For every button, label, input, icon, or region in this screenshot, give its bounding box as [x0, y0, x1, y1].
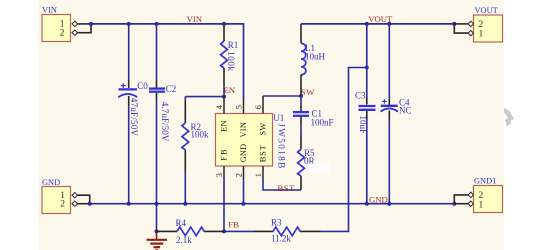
- resistor R4 body: [177, 227, 204, 236]
- resistor R5 top lead: [300, 135, 302, 149]
- capacitor C3 top wire: [366, 24, 368, 97]
- resistor R1 bottom lead: [223, 68, 225, 85]
- capacitor C1 bottom plate: [293, 115, 309, 117]
- VOUT pin 2 circle: [468, 21, 473, 26]
- U1 pin 3 lead: [223, 166, 225, 178]
- junction at VIN connector: [89, 22, 93, 26]
- capacitor C3 bottom lead: [366, 111, 368, 119]
- wire SW from pin6: [263, 95, 301, 97]
- resistor R3 right lead: [300, 230, 321, 232]
- capacitor C4 top lead: [388, 99, 390, 105]
- junction GND rail / R2: [183, 202, 187, 206]
- svg-text:BST: BST: [278, 183, 296, 193]
- capacitor C0 top plate: [119, 88, 138, 90]
- junction GND1 connector: [452, 202, 456, 206]
- U1 pin 2 lead: [243, 166, 245, 180]
- svg-text:VIN: VIN: [239, 122, 248, 138]
- svg-text:2: 2: [60, 28, 65, 38]
- wire VOUT pin2 stub: [454, 23, 468, 25]
- capacitor C0 bottom lead: [128, 96, 130, 105]
- U1 pin 6 lead: [262, 96, 264, 114]
- wire GND1 pin1 stub: [454, 203, 468, 205]
- U1 pin 1 lead: [262, 166, 264, 180]
- wire C1 to R5: [300, 125, 302, 135]
- white patch artifact: [308, 164, 331, 173]
- svg-text:EN: EN: [224, 85, 236, 95]
- wire R1 to EN: [223, 85, 225, 97]
- U1 pin 5 lead: [243, 99, 245, 114]
- svg-text:5: 5: [234, 105, 243, 109]
- resistor R5 bottom lead: [300, 176, 302, 190]
- wire VOUT pin1 stub: [454, 24, 468, 33]
- junction FB node: [222, 229, 226, 233]
- junction GND rail / C2: [155, 202, 159, 206]
- svg-text:NC: NC: [399, 105, 412, 115]
- connector J VIN box: [42, 6, 71, 42]
- resistor R3 body: [273, 227, 300, 236]
- svg-text:U1: U1: [273, 113, 284, 123]
- resistor R4 left lead: [157, 230, 178, 232]
- capacitor C1 top plate: [293, 111, 309, 113]
- VIN pin 1 circle: [72, 21, 77, 26]
- wire GND pin2 stub: [77, 203, 90, 205]
- wire VOUT top rail: [301, 23, 454, 25]
- wire EN horizontal: [185, 96, 224, 98]
- svg-text:1: 1: [254, 173, 263, 177]
- wire VIN pin1 stub: [77, 23, 91, 25]
- wire GND1 pin2 stub: [454, 195, 468, 204]
- resistor R2 top wire: [184, 97, 186, 101]
- wire C3 to ground rail: [366, 119, 368, 204]
- svg-text:4.7uF/50V: 4.7uF/50V: [160, 102, 170, 142]
- junction VOUT connector: [452, 22, 456, 26]
- junction VOUT rail / C3: [365, 22, 369, 26]
- wire GND pin1 stub: [77, 195, 90, 204]
- svg-text:2.1k: 2.1k: [176, 235, 192, 245]
- svg-text:JW5018B: JW5018B: [275, 123, 285, 169]
- GND1 pin 2 circle: [468, 192, 473, 197]
- capacitor C1 top wire: [300, 96, 302, 105]
- ground earth symbol: [147, 229, 168, 250]
- capacitor C2 bottom lead: [156, 93, 158, 101]
- wire BST from pin1: [263, 180, 301, 190]
- inductor L1 coil: [301, 43, 306, 74]
- VOUT pin 1 circle: [468, 30, 473, 35]
- svg-text:VIN: VIN: [42, 6, 57, 15]
- capacitor C0 top lead: [128, 80, 130, 88]
- wire VIN top rail: [91, 24, 244, 99]
- junction EN node: [222, 95, 226, 99]
- resistor R3 left lead: [254, 230, 274, 232]
- svg-text:100nF: 100nF: [311, 118, 334, 128]
- capacitor C4 bottom lead: [388, 111, 390, 120]
- junction GND rail / C4: [387, 202, 391, 206]
- svg-text:100k: 100k: [226, 51, 236, 71]
- svg-text:6: 6: [254, 105, 263, 109]
- wire VIN pin2 stub: [77, 24, 91, 33]
- svg-text:EN: EN: [220, 120, 229, 132]
- wire FB to R3: [224, 230, 254, 232]
- svg-text:11.2k: 11.2k: [271, 234, 291, 244]
- svg-text:C3: C3: [355, 90, 366, 100]
- resistor R4 right lead: [204, 230, 224, 232]
- svg-text:FB: FB: [228, 220, 239, 230]
- resistor R2 bottom lead: [184, 150, 186, 172]
- junction R3 feedback tap: [365, 66, 369, 70]
- resistor R1 body: [221, 41, 228, 68]
- connector GND box: [42, 178, 71, 213]
- resistor R1 top lead: [223, 24, 225, 41]
- svg-text:2: 2: [60, 200, 65, 210]
- svg-text:FB: FB: [220, 148, 229, 160]
- svg-text:BST: BST: [259, 144, 268, 162]
- capacitor C0 plus sign: [121, 83, 126, 88]
- wire C4 to ground rail: [388, 119, 390, 204]
- capacitor C4 plus sign: [382, 99, 386, 103]
- svg-text:GND1: GND1: [474, 177, 496, 186]
- watermark gray arrow: [504, 108, 514, 127]
- svg-text:1: 1: [479, 200, 484, 210]
- U1 pin 4 lead: [223, 97, 225, 114]
- junction GND rail / C0: [127, 202, 131, 206]
- capacitor C4 top wire: [388, 24, 390, 99]
- svg-text:SW: SW: [259, 122, 268, 135]
- wire GND pin2 drop: [243, 180, 245, 204]
- capacitor C2 top plate: [149, 87, 165, 89]
- svg-text:VIN: VIN: [187, 14, 203, 24]
- resistor R2 top lead: [184, 101, 186, 123]
- svg-text:C0: C0: [137, 81, 148, 91]
- svg-text:47uF/50V: 47uF/50V: [129, 98, 139, 137]
- wire R3 to C3 node: [321, 68, 367, 232]
- capacitor C3 top lead: [366, 97, 368, 105]
- svg-text:R4: R4: [176, 218, 187, 228]
- junction GND rail / C3: [365, 202, 369, 206]
- connector GND1 box: [474, 177, 503, 213]
- svg-text:1: 1: [479, 30, 484, 40]
- op-amp U1 body box: [216, 113, 286, 170]
- svg-text:10uH: 10uH: [305, 52, 326, 62]
- capacitor C0 top wire: [128, 24, 130, 80]
- svg-text:10uF: 10uF: [358, 116, 368, 135]
- junction VIN rail / C0: [127, 22, 131, 26]
- svg-text:GND: GND: [369, 195, 388, 205]
- junction VOUT rail / C4: [387, 22, 391, 26]
- inductor L1 bottom lead: [300, 75, 302, 96]
- resistor R2 body: [182, 123, 189, 150]
- svg-text:R3: R3: [271, 218, 282, 228]
- connector VOUT box: [474, 6, 503, 42]
- svg-text:R1: R1: [228, 40, 239, 50]
- GND pin 1 circle: [72, 193, 77, 198]
- GND pin 2 circle: [72, 201, 77, 206]
- svg-text:2: 2: [234, 173, 243, 177]
- svg-text:C2: C2: [166, 84, 177, 94]
- junction VIN rail / C2: [155, 22, 159, 26]
- junction GND rail / pin2: [242, 202, 246, 206]
- svg-text:GND: GND: [239, 144, 248, 163]
- capacitor C4 top plate: [381, 105, 398, 107]
- svg-text:100k: 100k: [191, 129, 210, 139]
- inductor L1 top lead: [300, 24, 302, 44]
- wire C2 to ground rail and earth: [156, 101, 158, 231]
- wire GND bottom rail: [90, 203, 455, 205]
- capacitor C1 top lead: [300, 105, 302, 111]
- wire FB drop from pin3: [223, 178, 225, 231]
- capacitor C4 bottom plate (polarized arc): [381, 108, 399, 111]
- svg-text:VOUT: VOUT: [475, 6, 498, 15]
- resistor R5 body: [298, 149, 305, 176]
- junction at GND connector: [88, 202, 92, 206]
- capacitor C1 bottom lead: [300, 117, 302, 125]
- capacitor C2 bottom plate: [149, 91, 165, 93]
- junction SW node: [299, 94, 303, 98]
- capacitor C2 top lead: [156, 80, 158, 88]
- GND1 pin 1 circle: [468, 201, 473, 206]
- capacitor C3 top plate: [359, 105, 376, 107]
- svg-text:3: 3: [215, 173, 224, 177]
- wire R2 to ground rail: [184, 172, 186, 204]
- capacitor C0 bottom plate (polarized arc): [118, 94, 137, 97]
- junction VIN rail / R1: [222, 22, 226, 26]
- wire C0 to ground rail: [128, 105, 130, 204]
- svg-text:GND: GND: [42, 178, 60, 187]
- VIN pin 2 circle: [72, 30, 77, 35]
- capacitor C3 bottom plate: [359, 109, 376, 111]
- capacitor C2 top wire: [156, 24, 158, 80]
